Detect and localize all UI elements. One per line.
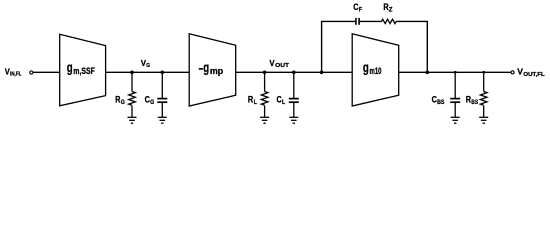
svg-text:L: L	[282, 99, 285, 106]
label gm,SSF	[67, 60, 95, 77]
resistor RG	[129, 92, 136, 106]
svg-text:g: g	[67, 60, 73, 75]
svg-text:BS: BS	[471, 99, 478, 106]
amplifier block -gmp	[189, 34, 236, 106]
wire RZ to right	[396, 20, 428, 22]
wire VG down to CG	[161, 72, 163, 98]
ground RL	[260, 117, 269, 123]
svg-text:G: G	[150, 99, 154, 106]
svg-text:m,SSF: m,SSF	[73, 66, 95, 77]
svg-text:BS: BS	[437, 99, 445, 106]
amplifier block gm,SSF	[60, 34, 106, 106]
svg-text:R: R	[248, 95, 254, 105]
label RG	[115, 95, 125, 106]
capacitor CL	[289, 99, 299, 103]
label RBS	[466, 95, 479, 106]
wire down to RBS	[483, 72, 485, 91]
wire feedback up from VOUT	[321, 21, 323, 72]
svg-text:Z: Z	[389, 6, 393, 13]
svg-text:V: V	[517, 66, 523, 76]
ground RG	[128, 117, 137, 123]
label CF	[353, 2, 362, 13]
ground CL	[289, 117, 298, 123]
capacitor CBS	[450, 99, 460, 103]
wire RG to ground	[131, 106, 133, 118]
label CG	[145, 95, 155, 106]
wire -gmp to gm10	[236, 71, 353, 73]
wire RL to ground	[264, 106, 266, 118]
output terminal circle	[511, 71, 514, 74]
input terminal circle	[30, 71, 33, 74]
wire input to gm,SSF	[33, 71, 60, 73]
wire gm,SSF to -gmp	[106, 71, 190, 73]
label RZ	[383, 2, 392, 13]
svg-text:mp: mp	[210, 66, 223, 77]
label RL	[248, 95, 257, 106]
svg-text:g: g	[363, 60, 369, 75]
label -gmp	[199, 60, 224, 77]
wire gm10 to output terminal	[399, 71, 511, 73]
resistor RBS	[480, 92, 487, 106]
label gm10	[363, 60, 382, 77]
wire CBS to ground	[454, 103, 456, 118]
wire VOUT down to RL	[264, 72, 266, 91]
ground CG	[158, 117, 167, 123]
svg-text:V: V	[269, 58, 274, 68]
wire VG down to RG	[131, 72, 133, 91]
svg-text:L: L	[254, 99, 257, 106]
ground RBS	[479, 117, 488, 123]
node V_G label	[141, 58, 150, 69]
junction dot node VOUT / RL	[263, 71, 267, 75]
amplifier block gm10	[352, 34, 399, 106]
junction dot node VG / RG	[130, 71, 134, 75]
resistor RL	[261, 92, 268, 106]
capacitor CG	[157, 99, 167, 103]
node V_OUT label	[269, 58, 289, 69]
svg-text:OUT: OUT	[275, 63, 289, 69]
junction dot feedback at output	[426, 71, 430, 75]
wire feedback down to output	[426, 21, 428, 72]
junction dot CBS tap	[454, 71, 457, 74]
svg-text:G: G	[121, 99, 125, 106]
junction dot feedback tap at VOUT	[320, 71, 324, 75]
junction dot node VG / CG	[161, 71, 165, 75]
junction dot RBS tap	[482, 71, 485, 74]
wire down to CBS	[454, 72, 456, 98]
node V_IN,FL label	[5, 67, 22, 78]
svg-text:g: g	[203, 60, 209, 75]
wire CG to ground	[161, 103, 163, 118]
ground CBS	[451, 117, 460, 123]
wire CL to ground	[293, 103, 295, 118]
svg-text:OUT,FL: OUT,FL	[523, 72, 545, 78]
node V_OUT,FL label	[517, 66, 545, 78]
junction dot node VOUT / CL	[292, 71, 296, 75]
svg-text:IN,FL: IN,FL	[10, 72, 22, 78]
label CL	[277, 95, 286, 106]
wire VOUT down to CL	[293, 72, 295, 98]
wire CF to RZ	[360, 20, 382, 22]
wire top left segment	[321, 20, 355, 22]
svg-text:m10: m10	[370, 66, 382, 77]
svg-text:F: F	[359, 6, 362, 13]
resistor RZ	[382, 19, 397, 23]
wire RBS to ground	[483, 106, 485, 118]
capacitor CF	[356, 18, 359, 25]
label CBS	[432, 95, 445, 106]
svg-text:G: G	[146, 63, 150, 69]
